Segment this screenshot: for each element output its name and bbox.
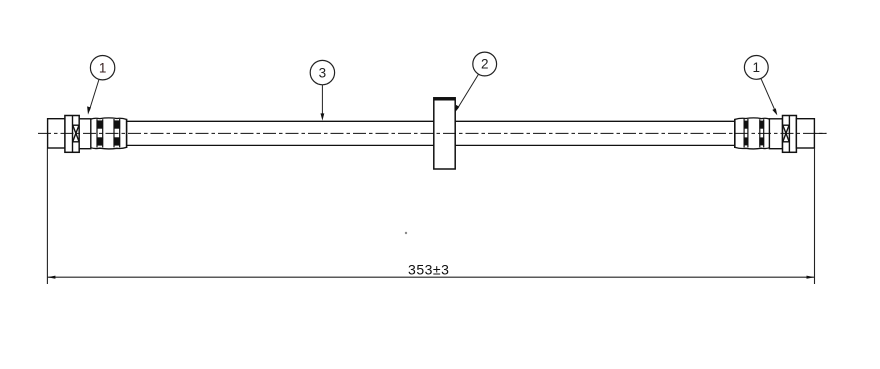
- left collar X-cell top line: [73, 124, 80, 126]
- bracket 2 thick top flange: [434, 97, 456, 100]
- svg-text:3: 3: [319, 65, 327, 80]
- left crimp ring 2 upper block: [114, 120, 121, 128]
- right collar divider: [788, 116, 790, 153]
- stray speck: [405, 232, 407, 234]
- dimension arrow left: [47, 276, 55, 279]
- leader line 1 right: [761, 78, 775, 109]
- callout circle 3: [310, 60, 334, 84]
- right fitting end socket: [796, 119, 814, 148]
- left crimp ring 1 upper block: [97, 120, 104, 128]
- leader arrowhead 1 right: [772, 108, 777, 115]
- left corrugated sleeve right boundary: [126, 119, 128, 148]
- left crimp ring 1 lines: [96, 119, 98, 147]
- dimension line: [47, 276, 814, 278]
- right crimp ring 1 lines: [743, 119, 745, 147]
- leader line 1 left: [89, 79, 99, 110]
- left fitting end socket: [48, 119, 66, 148]
- callout circle 1 right: [744, 56, 768, 80]
- svg-text:353±3: 353±3: [408, 262, 449, 278]
- right crimp ring 1 lower block: [744, 137, 749, 145]
- left collar divider: [72, 116, 74, 153]
- right fitting body: [769, 119, 782, 149]
- left extension line: [46, 149, 48, 285]
- left collar X-cell bottom line: [73, 141, 80, 143]
- left collar X mark: [73, 125, 79, 141]
- leader arrowhead 3: [321, 113, 325, 120]
- hose tube 3 bottom line: [127, 144, 735, 146]
- leader arrowhead 2: [455, 105, 460, 113]
- left corrugated sleeve outline: [91, 118, 127, 149]
- left crimp ring 2 lower block: [114, 137, 121, 145]
- centerline right stub dash: [816, 132, 827, 134]
- leader line 2: [457, 74, 478, 109]
- callout circle 1 left: [90, 55, 114, 79]
- right collar X mark: [783, 125, 789, 141]
- right crimp ring 2 lines: [759, 119, 761, 147]
- right extension line: [814, 148, 816, 284]
- leader line 3: [321, 85, 323, 116]
- left fitting body: [79, 119, 91, 149]
- right fitting crimp collar: [783, 116, 797, 153]
- svg-text:1: 1: [99, 60, 107, 75]
- right crimp ring 1 upper block: [744, 121, 749, 129]
- svg-text:2: 2: [481, 57, 489, 72]
- bracket 2 body: [434, 98, 455, 169]
- right crimp ring 2 upper block: [759, 121, 764, 129]
- leader arrowhead 1 left: [87, 106, 91, 114]
- dimension arrow right: [807, 276, 815, 279]
- right corrugated sleeve left boundary: [734, 119, 736, 148]
- right collar X-cell top line: [783, 124, 790, 126]
- hose tube 3 top line: [127, 120, 735, 122]
- callout circle 2: [473, 52, 497, 76]
- centerline (dash-dot): [38, 132, 827, 134]
- left crimp ring 1 lower block: [97, 137, 104, 145]
- left crimp ring 2 lines: [113, 119, 115, 147]
- right collar X-cell bottom line: [783, 141, 790, 143]
- svg-text:1: 1: [753, 60, 761, 75]
- right corrugated sleeve outline: [735, 118, 770, 149]
- left fitting crimp collar: [65, 116, 79, 153]
- right crimp ring 2 lower block: [759, 137, 764, 145]
